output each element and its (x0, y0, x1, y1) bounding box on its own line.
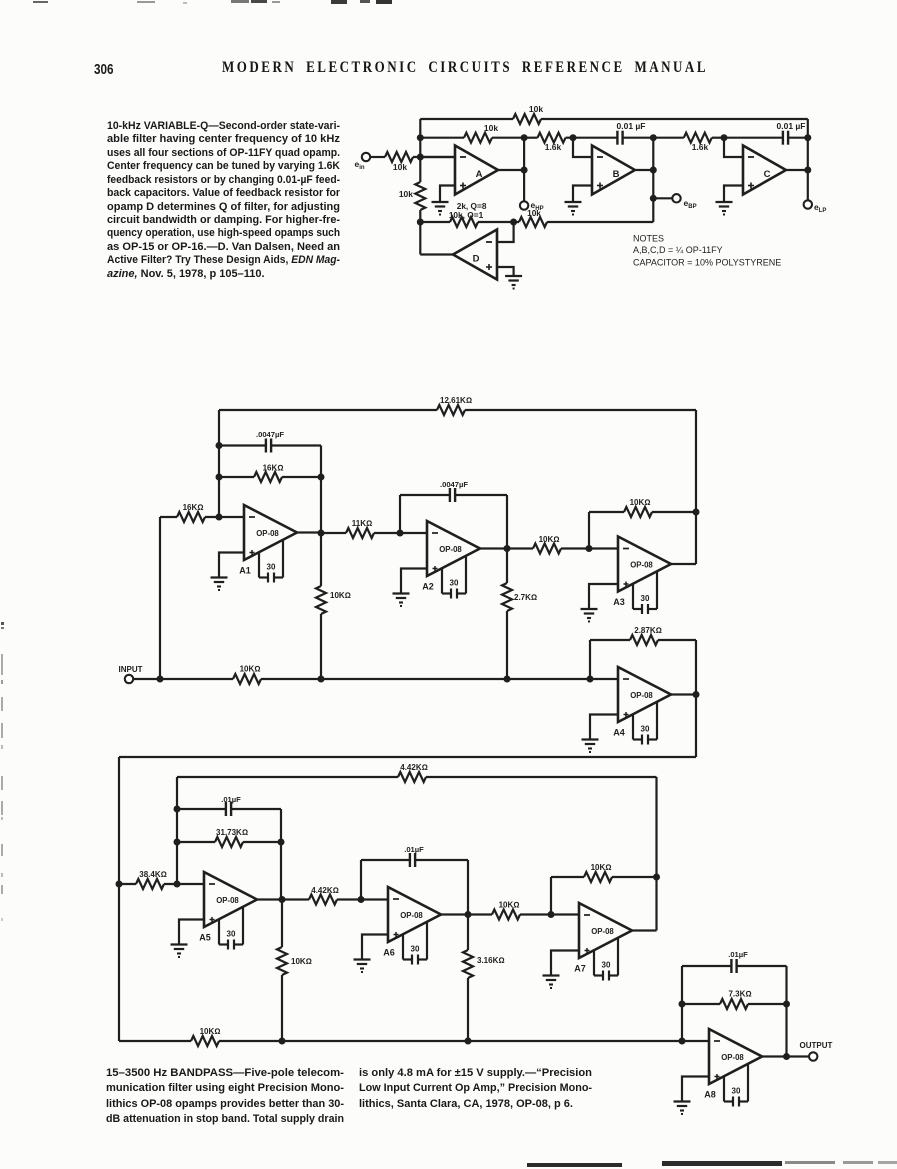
resistor 2.7K below A2 (502, 583, 512, 611)
op-amp A1 (244, 505, 297, 560)
wire A output (498, 169, 524, 171)
svg-text:7.3KΩ: 7.3KΩ (728, 990, 751, 999)
resistor 10k D feedback (519, 217, 547, 227)
node A4 out (693, 691, 700, 698)
svg-text:30: 30 (602, 961, 611, 970)
wire C minus input (724, 138, 743, 157)
vertical A5 fb right leg (280, 809, 282, 900)
node A7 minus (548, 911, 555, 918)
node C-out top (804, 134, 811, 141)
vertical at C output (807, 119, 809, 200)
op-amp B (592, 146, 635, 195)
vertical A4 output leg (695, 640, 697, 757)
left vertical bus bottom (118, 757, 120, 1041)
resistor 3.16K below A6 (463, 950, 473, 978)
svg-text:30: 30 (267, 563, 276, 572)
feedback rail 10K A7 (551, 876, 584, 878)
left vertical from input (159, 517, 161, 679)
node main left top (417, 134, 424, 141)
input terminal (125, 675, 133, 683)
op-amp A6 (388, 887, 441, 942)
cap rail A1 (219, 444, 266, 446)
wire A2 output (480, 547, 507, 549)
vertical below A5 out (281, 900, 283, 948)
wire to node A-out (492, 137, 524, 139)
ground of op-amp A (440, 186, 455, 203)
ground of op-amp C (724, 186, 743, 203)
cap rail A6 (361, 859, 410, 861)
running head (222, 59, 821, 77)
feedback rail 2.87K A4 (590, 639, 630, 641)
wire B output (636, 169, 653, 171)
bottom caption column 1 (106, 1066, 344, 1128)
bottom rail to A8 (119, 1040, 191, 1042)
svg-text:NOTES: NOTES (633, 234, 664, 244)
svg-text:A: A (476, 169, 483, 180)
svg-text:OP-08: OP-08 (400, 911, 423, 920)
vertical at A1 output net (320, 446, 322, 587)
rail1 from A4 output (119, 756, 696, 758)
node cap rail left (216, 442, 223, 449)
svg-text:10KΩ: 10KΩ (591, 863, 612, 872)
capacitor .01uF A6 (409, 853, 411, 867)
node 31.73K right (278, 839, 285, 846)
svg-text:A7: A7 (574, 964, 586, 974)
vertical A3 out to top rail (695, 410, 697, 564)
svg-text:10k: 10k (484, 123, 498, 133)
wire e_in to R1 (370, 156, 385, 158)
wire to A3 minus (589, 547, 618, 549)
vertical A7 out to rail2 (655, 777, 657, 931)
svg-text:1.6k: 1.6k (692, 142, 709, 152)
svg-text:16KΩ: 16KΩ (263, 464, 284, 473)
svg-text:10k: 10k (393, 162, 407, 172)
capacitor .0047uF A1 (265, 439, 267, 453)
svg-text:OP-08: OP-08 (256, 529, 279, 538)
capacitor 0.01uF feedback C (782, 131, 784, 145)
capacitor .01uF A5 (225, 802, 227, 816)
resistor 10k to opamp A (464, 133, 492, 143)
node 16K rail right (318, 474, 325, 481)
capacitor 0.01uF feedback B (616, 131, 618, 145)
node A-out top (521, 134, 528, 141)
svg-text:10KΩ: 10KΩ (200, 1027, 221, 1036)
svg-text:10k: 10k (399, 189, 413, 199)
node A-out (521, 167, 528, 174)
svg-text:.01µF: .01µF (728, 950, 748, 959)
node B minus (570, 134, 577, 141)
second rail segment A (420, 137, 464, 139)
cap net vertical A2 (399, 495, 401, 533)
resistor 38.4K input A5 (119, 883, 136, 885)
op-amp D (points left) (453, 230, 497, 280)
svg-text:C: C (764, 169, 771, 180)
node bottom rail A5 net (279, 1038, 286, 1045)
svg-text:OP-08: OP-08 (630, 561, 653, 570)
resistor 31.73K rail A5 (177, 841, 215, 843)
node cap rail A5 left (174, 806, 181, 813)
capacitor .0047uF A2 (449, 488, 451, 502)
node B-out top (650, 134, 657, 141)
left edge scan dashes (1, 622, 4, 625)
svg-text:D: D (473, 254, 480, 265)
resistor 10K below A5 (277, 947, 287, 975)
node A3 minus (586, 545, 593, 552)
svg-text:0.01 µF: 0.01 µF (777, 121, 806, 131)
svg-text:30: 30 (641, 725, 650, 734)
wire C output (787, 169, 808, 171)
svg-text:OP-08: OP-08 (721, 1053, 744, 1062)
left vertical bus A1 (218, 410, 220, 517)
wire A1 output (297, 531, 321, 533)
node left lower rail (417, 219, 424, 226)
left vertical bus (419, 119, 421, 182)
wire to A6 minus (361, 898, 388, 900)
wire A7 output (632, 929, 657, 931)
resistor 10K A2 to A3 (507, 547, 533, 549)
wire A5 output (257, 898, 282, 900)
resistor 16K feedback rail A1 (219, 476, 254, 478)
wire to A7 minus (551, 913, 579, 915)
node 31.73K left (174, 839, 181, 846)
vertical at A output (523, 138, 525, 202)
node e_BP tap (650, 195, 657, 202)
svg-text:30: 30 (227, 930, 236, 939)
op-amp A8 (709, 1029, 762, 1084)
wire A3 output (671, 563, 696, 565)
resistor 2k/10k Q-set (450, 217, 478, 227)
feedback rail 12.61K (219, 409, 437, 411)
bottom edge scan bars (527, 1163, 622, 1167)
resistor 12.61K (437, 405, 465, 415)
vertical at A2 output (506, 495, 508, 583)
terminal e_BP (672, 194, 680, 202)
svg-text:10k: 10k (527, 208, 541, 218)
node A3 feedback right (693, 509, 700, 516)
svg-text:2.7KΩ: 2.7KΩ (514, 593, 537, 602)
wire to cap C (724, 137, 783, 139)
wire input (133, 678, 160, 680)
node A6 minus net (358, 896, 365, 903)
resistor 10K bottom rail (191, 1036, 219, 1046)
node 38.4K branch (116, 881, 123, 888)
vertical 2.87K left leg (589, 640, 591, 679)
svg-text:A,B,C,D = ¼ OP-11FY: A,B,C,D = ¼ OP-11FY (633, 245, 723, 255)
svg-text:30: 30 (732, 1087, 741, 1096)
svg-text:eBP: eBP (684, 198, 697, 210)
op-amp A4 (618, 667, 671, 722)
svg-text:30: 30 (411, 945, 420, 954)
svg-text:A3: A3 (613, 597, 625, 607)
svg-text:31.73KΩ: 31.73KΩ (216, 828, 248, 837)
resistor 11K A1 to A2 (321, 532, 346, 534)
resistor 10k vertical (415, 182, 425, 210)
terminal e_HP (520, 201, 528, 209)
svg-text:.01µF: .01µF (221, 795, 241, 804)
feedback rail 4.42K from A7 (177, 776, 398, 778)
feedback rail 10K A3 (589, 511, 624, 513)
node input rail at A1 net (318, 676, 325, 683)
svg-text:OUTPUT: OUTPUT (800, 1041, 833, 1050)
vertical A7 feedback (550, 877, 552, 915)
wire to A2 minus (400, 532, 427, 534)
lower rail of top circuit (420, 221, 450, 223)
wire minus input A (420, 156, 455, 158)
vertical at B output (652, 138, 654, 222)
svg-text:10KΩ: 10KΩ (539, 535, 560, 544)
svg-text:OP-08: OP-08 (591, 927, 614, 936)
resistor 1.6k B to C (684, 133, 712, 143)
descriptive paragraph (10-kHz VARIABLE-Q) (107, 120, 340, 281)
ground of op-amp B (573, 186, 592, 203)
svg-text:A5: A5 (199, 933, 211, 943)
svg-text:INPUT: INPUT (119, 665, 143, 674)
svg-text:A4: A4 (613, 728, 625, 738)
node A5 minus (174, 881, 181, 888)
node e_in junction (417, 154, 424, 161)
svg-text:.01µF: .01µF (404, 845, 424, 854)
resistor 10k top feedback (513, 114, 541, 124)
node A6 out (465, 911, 472, 918)
resistor 4.42K A5 to A6 (282, 898, 309, 900)
node A8 minus net (679, 1038, 686, 1045)
node 7.3K left (679, 1001, 686, 1008)
bottom caption column 2 (359, 1066, 592, 1112)
wire A4 output (671, 693, 696, 695)
page number (94, 61, 119, 78)
svg-text:0.01 µF: 0.01 µF (617, 121, 646, 131)
svg-text:30: 30 (641, 594, 650, 603)
ground of op-amp D (497, 267, 514, 276)
cap rail A5 (177, 808, 226, 810)
node C minus (721, 134, 728, 141)
op-amp A7 (579, 903, 632, 958)
vertical A5 minus net (176, 777, 178, 884)
svg-text:eLP: eLP (814, 202, 826, 214)
svg-text:10KΩ: 10KΩ (499, 901, 520, 910)
node 7.3K right (783, 1001, 790, 1008)
node A1 minus (216, 514, 223, 521)
wire D output to left bus (420, 253, 453, 255)
svg-text:OP-08: OP-08 (439, 545, 462, 554)
node input rail at A2 net (504, 676, 511, 683)
vertical cap net A6 (360, 860, 362, 900)
svg-text:3.16KΩ: 3.16KΩ (477, 956, 505, 965)
svg-text:4.42KΩ: 4.42KΩ (311, 886, 339, 895)
node A4 minus (587, 676, 594, 683)
resistor 10K A6 to A7 (468, 913, 492, 915)
svg-text:10k: 10k (529, 104, 543, 114)
node A2 out (504, 545, 511, 552)
cap rail A8 (682, 965, 731, 967)
node D junction (510, 219, 517, 226)
vertical at A6 output (467, 860, 469, 950)
wire A6 output (441, 913, 468, 915)
node A5 out (279, 896, 286, 903)
top edge scan artifacts (33, 1, 48, 3)
node C-out (804, 167, 811, 174)
op-amp A5 (204, 872, 257, 927)
vertical A8 fb right leg (785, 966, 787, 1057)
svg-text:38.4KΩ: 38.4KΩ (139, 870, 167, 879)
svg-text:10KΩ: 10KΩ (240, 665, 261, 674)
svg-text:30: 30 (450, 579, 459, 588)
wire B-out to 1.6k (653, 137, 684, 139)
svg-text:2.87KΩ: 2.87KΩ (634, 626, 662, 635)
svg-text:11KΩ: 11KΩ (352, 519, 372, 528)
svg-text:16KΩ: 16KΩ (183, 503, 204, 512)
svg-text:A8: A8 (704, 1090, 716, 1100)
op-amp A (455, 146, 498, 195)
cap rail A2 (400, 494, 450, 496)
svg-text:.0047µF: .0047µF (440, 480, 468, 489)
svg-text:OP-08: OP-08 (216, 896, 239, 905)
resistor 10K below A1 (316, 586, 326, 614)
svg-text:A6: A6 (383, 948, 395, 958)
vertical A8 fb left leg (681, 966, 683, 1041)
svg-text:10KΩ: 10KΩ (291, 957, 312, 966)
svg-text:4.42KΩ: 4.42KΩ (400, 763, 428, 772)
input resistor 16K (160, 516, 177, 518)
op-amp C (743, 146, 786, 195)
svg-text:A2: A2 (422, 582, 434, 592)
svg-text:10KΩ: 10KΩ (330, 591, 351, 600)
wire to e_BP (653, 197, 672, 199)
node bottom rail A6 net (465, 1038, 472, 1045)
svg-text:12.61KΩ: 12.61KΩ (440, 396, 472, 405)
terminal OUTPUT (809, 1052, 817, 1060)
terminal e_LP (804, 200, 812, 208)
op-amp A3 (618, 537, 671, 592)
wire A8 output (762, 1055, 809, 1057)
input rail resistor 10K (160, 678, 233, 680)
svg-text:B: B (613, 169, 620, 180)
capacitor .01uF A8 (730, 959, 732, 973)
input terminal e_in (362, 153, 370, 161)
svg-text:10KΩ: 10KΩ (630, 498, 651, 507)
svg-text:A1: A1 (239, 566, 251, 576)
top feedback rail 10k (420, 118, 513, 120)
svg-text:.0047µF: .0047µF (256, 430, 284, 439)
resistor 7.3K rail A8 (682, 1003, 720, 1005)
node A8 out (783, 1053, 790, 1060)
wire B minus input (573, 138, 592, 157)
resistor 10k input (385, 152, 413, 162)
resistor 1.6k A to B (524, 137, 537, 139)
op-amp A2 (427, 521, 480, 576)
wire R1 to node (413, 156, 455, 158)
wire D minus input (497, 222, 514, 242)
node A7 feedback right (653, 874, 660, 881)
node A1 out (318, 530, 325, 537)
svg-text:1.6k: 1.6k (545, 142, 562, 152)
node 16K rail left (216, 474, 223, 481)
node input left vertical (157, 676, 164, 683)
svg-text:OP-08: OP-08 (630, 691, 653, 700)
wire to cap B (573, 137, 617, 139)
node B-out (650, 167, 657, 174)
node A2 minus net (397, 530, 404, 537)
vertical A3 feedback (588, 512, 590, 549)
svg-text:CAPACITOR = 10% POLYSTYRENE: CAPACITOR = 10% POLYSTYRENE (633, 258, 781, 268)
